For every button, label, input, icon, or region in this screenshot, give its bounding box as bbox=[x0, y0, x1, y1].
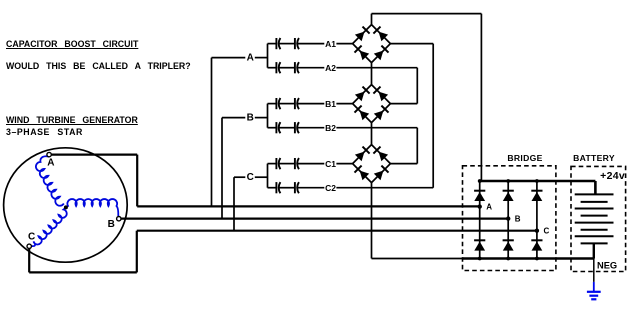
capacitor B2b bbox=[295, 122, 299, 133]
diode D2t upper leg B bbox=[503, 191, 514, 201]
svg-text:NEG: NEG bbox=[597, 261, 617, 271]
junction node B bbox=[506, 216, 510, 220]
wire C1 to bridge 3 bbox=[336, 163, 352, 165]
diode bridge D2 (phase B) bbox=[353, 85, 391, 123]
wire riser phase A to caps bbox=[211, 58, 213, 207]
wire phase A horizontal run bbox=[137, 205, 480, 207]
svg-text:BRIDGE: BRIDGE bbox=[507, 153, 542, 163]
winding B (blue coil) bbox=[66, 199, 118, 216]
BRIDGE enclosure box bbox=[463, 166, 556, 271]
wire battery positive stem bbox=[594, 181, 596, 194]
svg-text:A1: A1 bbox=[325, 39, 336, 49]
wire A1 branch bbox=[268, 43, 277, 45]
capacitor B1a bbox=[276, 98, 280, 109]
subtitle: WOULD THIS BE CALLED A TRIPLER? bbox=[6, 61, 191, 71]
capacitor C1a bbox=[276, 158, 280, 169]
svg-text:+24v: +24v bbox=[600, 170, 625, 182]
wire phase C horizontal run bbox=[137, 230, 537, 232]
wire positive rail bbox=[480, 180, 596, 182]
capacitor A1a bbox=[276, 38, 280, 49]
terminal C bbox=[27, 244, 31, 248]
svg-text:B: B bbox=[247, 113, 254, 124]
diode D1t upper leg A bbox=[474, 191, 485, 201]
svg-text:C: C bbox=[247, 172, 254, 183]
bridge leg A wire bbox=[479, 181, 481, 259]
svg-text:BATTERY: BATTERY bbox=[573, 153, 615, 163]
svg-text:B1: B1 bbox=[325, 99, 336, 109]
capacitor C1b bbox=[295, 158, 299, 169]
svg-text:C: C bbox=[28, 231, 35, 242]
generator G1 circle bbox=[4, 148, 128, 262]
wire bridge1- to bridge2+ bbox=[371, 63, 373, 85]
svg-text:A: A bbox=[47, 157, 54, 168]
svg-text:C2: C2 bbox=[325, 183, 336, 193]
capacitor A2a bbox=[276, 62, 280, 73]
diode bridge D3 (phase C) bbox=[353, 145, 391, 183]
svg-text:A: A bbox=[486, 203, 492, 212]
wire C1 branch bbox=[268, 163, 277, 165]
bridge leg C wire bbox=[536, 181, 538, 259]
wire riser phase B to caps bbox=[221, 118, 223, 219]
capacitor B2a bbox=[276, 122, 280, 133]
wire A2 branch bbox=[268, 67, 277, 69]
wire B2 branch bbox=[268, 127, 277, 129]
capacitor C2b bbox=[295, 182, 299, 193]
wire negative rail bbox=[463, 257, 594, 259]
wire phase C from terminal bbox=[28, 249, 30, 273]
wire battery negative stem bbox=[593, 243, 595, 258]
svg-text:B: B bbox=[515, 215, 521, 224]
label: 3-PHASE STAR bbox=[6, 127, 83, 137]
wire C2 branch bbox=[268, 187, 277, 189]
wire split node C bbox=[267, 164, 269, 188]
svg-text:B2: B2 bbox=[325, 123, 336, 133]
terminal A bbox=[47, 152, 51, 156]
wire split node B bbox=[267, 104, 269, 128]
capacitor B1b bbox=[295, 98, 299, 109]
diode bridge D1 (phase A) bbox=[353, 25, 391, 63]
wire split node A bbox=[267, 44, 269, 68]
svg-text:A: A bbox=[247, 53, 254, 64]
label: WIND TURBINE GENERATOR bbox=[6, 115, 138, 125]
diode D3t upper leg C bbox=[531, 191, 542, 201]
wire bridge2- to bridge3+ bbox=[371, 123, 373, 145]
wire phase A from terminal bbox=[51, 154, 137, 156]
winding A (blue coil) bbox=[36, 156, 64, 205]
ground symbol bbox=[587, 282, 601, 299]
svg-text:C: C bbox=[544, 227, 550, 236]
bridge leg B wire bbox=[507, 181, 509, 259]
wire A2 to bridge 2 right bbox=[336, 67, 417, 69]
wire bridge1 + output top bbox=[371, 14, 373, 25]
wire A1 to bridge 1 bbox=[336, 43, 352, 45]
wire phase B horizontal run bbox=[121, 218, 508, 220]
wire B1 branch bbox=[268, 103, 277, 105]
terminal B bbox=[117, 217, 121, 221]
diode D2b lower leg B bbox=[503, 240, 514, 250]
wire riser phase C to caps bbox=[233, 177, 235, 231]
svg-text:A2: A2 bbox=[325, 63, 336, 73]
diode D3b lower leg C bbox=[531, 240, 542, 250]
wire to ground bbox=[593, 259, 595, 282]
svg-text:B: B bbox=[108, 219, 115, 230]
diode D1b lower leg A bbox=[474, 240, 485, 250]
winding C (blue coil) bbox=[31, 207, 67, 246]
BATTERY enclosure box bbox=[571, 166, 626, 271]
title: CAPACITOR BOOST CIRCUIT bbox=[6, 39, 138, 49]
star center node bbox=[64, 205, 68, 209]
wire bridge3- to negative rail bbox=[371, 183, 373, 259]
battery BT1 plates bbox=[575, 194, 614, 243]
capacitor A2b bbox=[295, 62, 299, 73]
junction node C bbox=[535, 229, 539, 233]
wire B1 to bridge 2 bbox=[336, 103, 352, 105]
capacitor C2a bbox=[276, 182, 280, 193]
wire B2 to bridge 3 right bbox=[336, 127, 417, 129]
wire C2 to bridge 1 right bbox=[336, 187, 433, 189]
junction node A bbox=[478, 204, 482, 208]
capacitor A1b bbox=[295, 38, 299, 49]
svg-text:C1: C1 bbox=[325, 159, 336, 169]
